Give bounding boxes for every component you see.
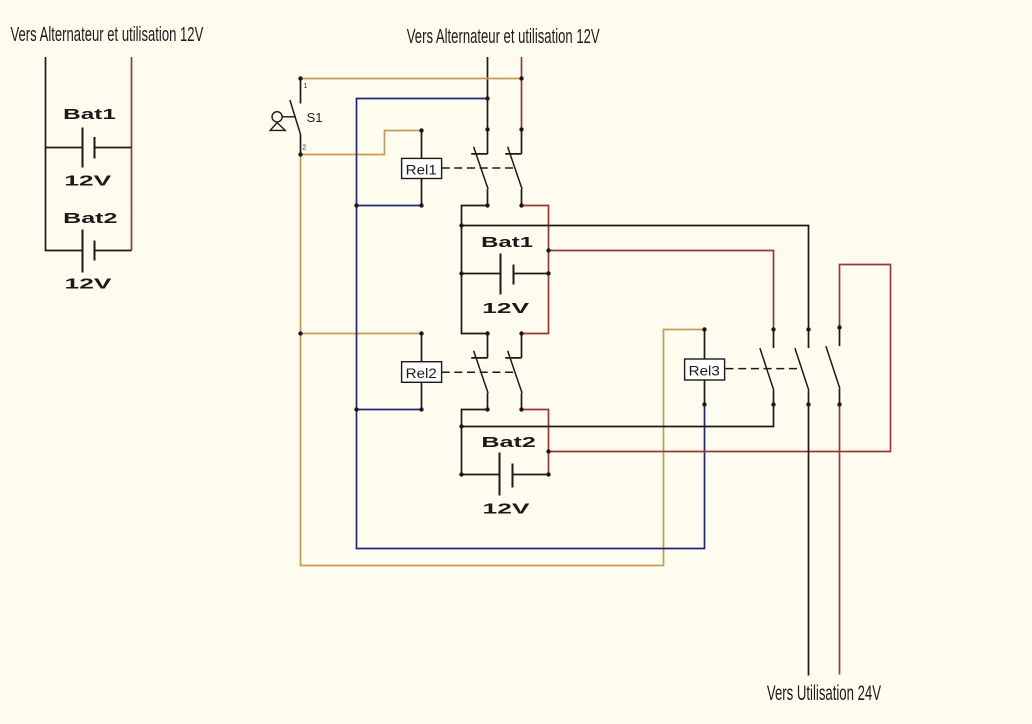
- wire: orange top rail S1 to red feeder: [301, 78, 522, 80]
- wire: middle red feeder vertical: [521, 57, 523, 130]
- wire: red loop Bat2 to Rel3 contact-c: [549, 265, 891, 452]
- wire: orange left rail down and across to Rel3 coil: [301, 155, 705, 566]
- contact Rel2-b: [505, 334, 522, 410]
- wire: left circuit red rail: [131, 57, 133, 251]
- wire: black Bat2 left corner: [462, 410, 488, 475]
- wire: blue net coil returns: [357, 99, 705, 549]
- label: Vers Utilisation 24V: [767, 681, 881, 705]
- svg-text:12V: 12V: [482, 300, 530, 317]
- battery Bat1 (middle): [462, 234, 549, 316]
- battery Bat1 (left): [46, 106, 132, 189]
- wire: orange branch to Rel2 coil: [301, 333, 422, 335]
- wire: middle black feeder vertical: [487, 57, 489, 130]
- relay coil Rel2: [402, 334, 442, 410]
- wire: black long feed Bat2-top to Rel3 contact-a bottom: [462, 405, 774, 427]
- switch S1: [270, 79, 322, 155]
- svg-text:Rel2: Rel2: [406, 366, 437, 381]
- junction dots (nodes): [298, 76, 841, 476]
- contact Rel3-b: [795, 330, 809, 405]
- dashed link Rel1: [442, 167, 514, 169]
- wire: black Bat1 left loop: [462, 206, 488, 334]
- svg-text:2: 2: [303, 144, 307, 151]
- battery Bat2 (middle): [462, 434, 549, 517]
- svg-text:Bat1: Bat1: [481, 234, 533, 250]
- wire: red feed Bat1 to Rel3 contact-a: [549, 251, 774, 330]
- svg-text:Vers Alternateur et utilisatio: Vers Alternateur et utilisation 12V: [11, 23, 204, 45]
- svg-text:Bat2: Bat2: [63, 210, 117, 227]
- wire: black output to 24V: [808, 405, 810, 676]
- dashed link Rel2: [442, 371, 514, 373]
- svg-text:Bat2: Bat2: [481, 434, 536, 451]
- contact Rel1-a: [471, 130, 488, 206]
- relay coil Rel1: [402, 131, 442, 206]
- svg-text:12V: 12V: [483, 500, 531, 517]
- svg-text:1: 1: [304, 83, 308, 90]
- wire: black long feed Bat1-top to Rel3 contact-b: [462, 226, 809, 330]
- dashed link Rel3: [726, 368, 799, 370]
- label: header middle: [407, 25, 600, 47]
- wire: red output to 24V: [839, 405, 841, 675]
- svg-text:12V: 12V: [65, 275, 113, 292]
- wire: left circuit black rail: [46, 57, 83, 251]
- battery Bat2 (left): [63, 210, 131, 292]
- wire: red Bat2 right corner: [522, 410, 549, 475]
- contact Rel3-c: [826, 328, 840, 405]
- svg-text:S1: S1: [307, 110, 323, 125]
- contact Rel3-a: [760, 330, 774, 405]
- contact Rel1-b: [505, 130, 522, 206]
- svg-text:12V: 12V: [64, 172, 112, 189]
- svg-text:Bat1: Bat1: [63, 106, 116, 122]
- contact Rel2-a: [471, 334, 488, 410]
- label: header left: [11, 23, 204, 45]
- wire: orange S1 to Rel1 coil: [301, 131, 422, 155]
- svg-text:Vers Utilisation 24V: Vers Utilisation 24V: [767, 681, 881, 705]
- svg-text:Vers Alternateur et utilisatio: Vers Alternateur et utilisation 12V: [407, 25, 600, 47]
- svg-text:Rel3: Rel3: [689, 364, 720, 379]
- svg-text:Rel1: Rel1: [406, 163, 437, 178]
- wire: blue branch Rel1: [357, 205, 422, 207]
- relay coil Rel3: [685, 330, 725, 405]
- wire: blue branch Rel2: [357, 409, 422, 411]
- wire: red Bat1 right loop: [522, 206, 549, 334]
